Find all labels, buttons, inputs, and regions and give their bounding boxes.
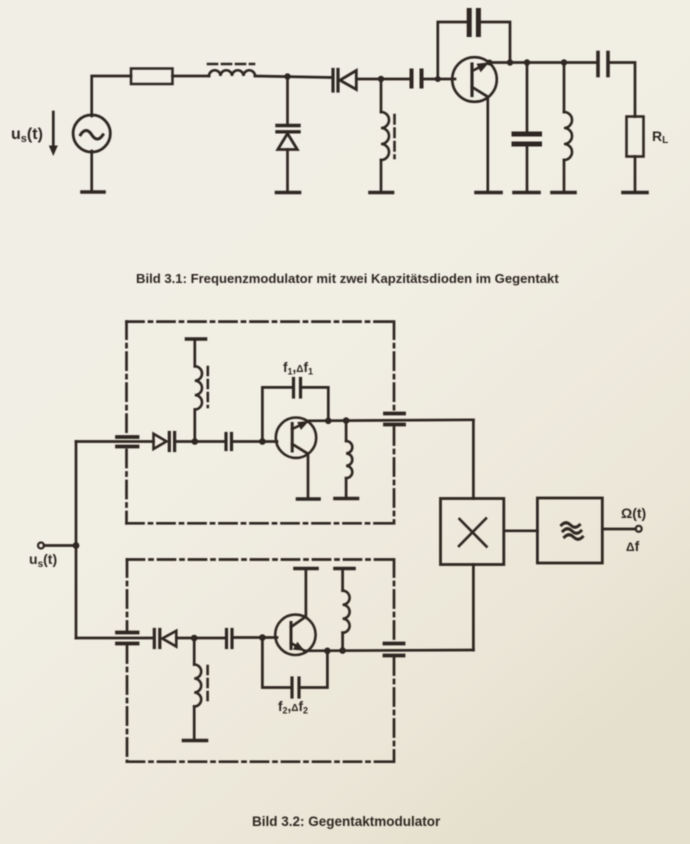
wire D4 to node E xyxy=(176,637,226,640)
node shunt cap xyxy=(524,59,530,65)
output terminal xyxy=(636,526,642,532)
dashed core of L4 xyxy=(207,367,210,407)
diode D3 (anode left) xyxy=(154,434,167,449)
ground under L6 xyxy=(184,739,207,743)
wire terminal to bus xyxy=(44,544,76,547)
wire resistor to inductor xyxy=(173,75,210,78)
ground under emitter Q1 xyxy=(476,191,501,195)
feedback loop upper: wires xyxy=(262,387,328,441)
svg-text:Bild 3.2: Gegentaktmodulator: Bild 3.2: Gegentaktmodulator xyxy=(252,814,441,829)
wire C5 to RL xyxy=(608,63,635,117)
wire source top to resistor xyxy=(92,76,131,116)
ground under L5 xyxy=(335,497,358,501)
shunt inductor L2 branch xyxy=(380,79,383,112)
resistor RL xyxy=(627,117,644,157)
capacitor plates before D4 xyxy=(154,630,160,648)
coil branch upper-left: wire xyxy=(193,410,196,442)
transistor Q1 circle xyxy=(452,57,497,102)
top bar above Q3 xyxy=(295,567,317,571)
node D base upper xyxy=(259,438,266,445)
inductor L1 xyxy=(209,70,255,76)
wire C7 to base xyxy=(232,636,277,639)
transistor Q2 emitter lead xyxy=(292,444,308,498)
filter box xyxy=(537,498,602,563)
node feedback-collector lower xyxy=(324,648,331,655)
node coil branch upper xyxy=(343,417,350,424)
transistor Q3 circle xyxy=(275,615,315,655)
feedback wire up xyxy=(438,22,510,79)
node E xyxy=(191,635,198,642)
ground under source xyxy=(82,151,104,192)
transistor Q3 collector lead with arrow xyxy=(291,642,305,651)
upper oscillator box (dash-dot) xyxy=(127,322,395,524)
collector line upper xyxy=(309,420,473,421)
label f1,df1 xyxy=(283,360,313,377)
inductor L7 xyxy=(343,591,350,633)
feedback capacitor Cf2 xyxy=(292,678,299,697)
ground under varactor xyxy=(277,191,300,195)
transistor Q1 collector lead with arrow xyxy=(472,62,490,72)
wire L7 to top bar xyxy=(341,570,344,591)
wire to mixer top xyxy=(472,420,475,499)
output capacitor C5 xyxy=(598,53,608,76)
node feedback-base xyxy=(435,76,441,82)
caption Bild 3.2 xyxy=(252,814,441,829)
label RL xyxy=(652,128,668,146)
dashed core of L2 xyxy=(393,115,396,158)
capacitor C3 xyxy=(412,71,422,87)
feedthrough capacitor upper-left xyxy=(117,437,138,447)
capacitor C6 xyxy=(226,434,232,450)
label us(t) xyxy=(11,126,43,145)
label f2,df2 xyxy=(278,699,308,716)
wire C2 to ground xyxy=(526,147,529,192)
wire L2 to ground xyxy=(380,160,383,192)
collector output line xyxy=(490,61,597,64)
transistor Q3 emitter lead up xyxy=(291,570,306,627)
inductor L3 xyxy=(564,112,572,160)
varactor D1 diode triangle xyxy=(278,134,298,150)
dashed core of L1 xyxy=(208,63,254,66)
wire mixer to filter xyxy=(504,529,538,532)
ground under Q2 emitter xyxy=(298,497,320,501)
mixer box xyxy=(441,499,504,565)
arrow for us(t) xyxy=(49,112,58,156)
diode D4 (cathode left) xyxy=(162,631,176,647)
svg-text:Bild 3.1: Frequenzmodulator mi: Bild 3.1: Frequenzmodulator mit zwei Kap… xyxy=(136,271,559,286)
diode D3 cathode bar + plate xyxy=(169,433,174,451)
source V1 xyxy=(73,115,110,152)
collector line lower xyxy=(305,649,474,652)
node feedback-collector upper xyxy=(325,418,332,425)
wire L5 to ground xyxy=(345,478,348,497)
output wire xyxy=(602,528,635,531)
shunt capacitor C2 plates xyxy=(514,134,540,144)
coil branch: wire down xyxy=(345,421,348,441)
svg-text:Ω(t): Ω(t) xyxy=(621,505,646,521)
top bar above L7 xyxy=(335,567,354,571)
label Omega(t) xyxy=(621,505,646,521)
dashed core of L6 xyxy=(206,666,209,705)
ground under L2 xyxy=(370,191,393,195)
transistor Q3 base bar xyxy=(290,623,293,649)
feedback capacitor C4 xyxy=(469,11,478,35)
wire C3 to base xyxy=(422,78,456,81)
transistor Q2 collector lead with arrow xyxy=(292,421,309,430)
coil branch lower-left wire xyxy=(193,638,196,665)
diode D2 (cathode left) xyxy=(340,71,356,90)
ground under C2 xyxy=(514,191,539,195)
coupling capacitor C1 xyxy=(333,70,338,92)
svg-text:Δf: Δf xyxy=(626,538,640,554)
node coil branch lower xyxy=(339,647,346,654)
ground under RL xyxy=(623,191,647,195)
node A xyxy=(284,73,290,79)
feedthrough capacitor lower-right xyxy=(385,644,404,656)
inductor L6 xyxy=(194,665,201,707)
caption Bild 3.1 xyxy=(136,271,559,286)
wire L6 to ground xyxy=(193,707,196,740)
coil branch: wire up xyxy=(341,633,344,651)
wire L3 to ground xyxy=(563,160,566,192)
wire inductor to node A xyxy=(255,76,331,78)
transistor Q2 circle xyxy=(276,418,316,458)
transistor Q2 base bar xyxy=(291,424,294,452)
svg-text:us(t): us(t) xyxy=(11,126,43,145)
node F base lower xyxy=(259,634,266,641)
mixer X symbol xyxy=(459,519,487,547)
upper branch wire from bus xyxy=(76,440,154,443)
label delta f xyxy=(626,538,640,554)
feedthrough capacitor upper-right xyxy=(385,414,404,425)
transistor Q1 base bar xyxy=(470,64,473,96)
node collector exit xyxy=(487,60,493,66)
varactor D1 capacitor plates xyxy=(277,126,299,132)
feedback loop lower: wires xyxy=(262,638,327,688)
shunt inductor L3 branch wire xyxy=(563,63,566,113)
node B xyxy=(378,76,384,82)
lower branch wire from bus xyxy=(76,637,153,640)
wire varactor to ground xyxy=(286,150,289,192)
lower oscillator box (dash-dot) xyxy=(127,560,394,762)
inductor L5 xyxy=(346,441,352,478)
varactor D1 branch wire xyxy=(286,77,289,125)
feedback capacitor Cf1 xyxy=(294,379,301,398)
filter wave symbol xyxy=(562,523,583,540)
transistor Q1 emitter lead xyxy=(472,87,488,192)
wire C6 to base xyxy=(232,440,278,443)
ground under L3 xyxy=(552,191,575,195)
capacitor C7 xyxy=(227,630,233,648)
input bus vertical xyxy=(75,442,78,639)
input terminal xyxy=(38,543,44,549)
node bus xyxy=(73,542,80,549)
wire D3 to node C xyxy=(175,440,226,443)
node C xyxy=(192,438,199,445)
node feedback-collector xyxy=(507,59,513,65)
wire RL to ground xyxy=(634,157,637,192)
node shunt coil xyxy=(561,59,567,65)
feedthrough capacitor lower-left xyxy=(117,633,138,644)
wire to mixer bottom xyxy=(472,565,475,651)
top bar above L4 xyxy=(187,337,206,341)
inductor L4 xyxy=(195,366,202,409)
wire diode to node B xyxy=(356,78,410,81)
shunt capacitor C2 branch wire xyxy=(526,63,529,132)
inductor L2 xyxy=(381,112,389,160)
wire L4 to top bar xyxy=(193,340,196,366)
resistor R1 xyxy=(131,69,173,85)
label us(t) fig2 xyxy=(29,551,57,570)
